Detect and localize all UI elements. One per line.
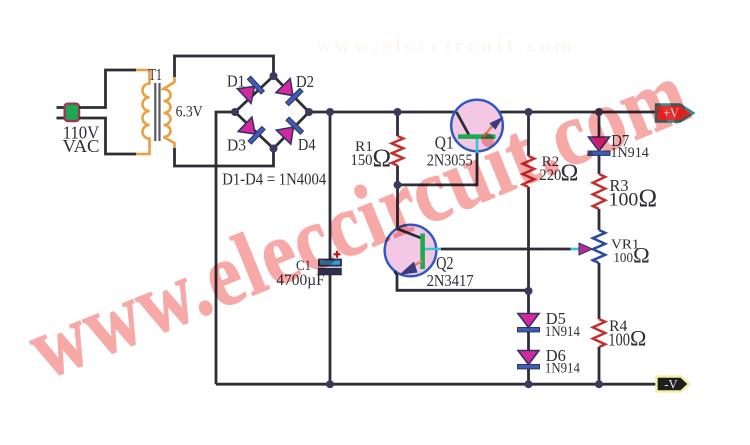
wire C1 branch top <box>329 112 332 260</box>
wire top rail to D7 <box>598 112 601 137</box>
diode D6 <box>518 351 540 369</box>
junction R1 top rail <box>394 108 402 116</box>
junction R4 ground rail <box>595 380 603 388</box>
watermark www.eleccircuit.com <box>15 43 702 399</box>
wire bridge left node to ground rail <box>216 112 235 384</box>
transistor Q2 2N3417 <box>385 225 441 277</box>
wire plug to primary bottom <box>79 118 137 154</box>
wire Q2 base to VR1 wiper (black part) <box>441 248 571 251</box>
svg-text:Q2: Q2 <box>436 253 454 273</box>
resistor R1 <box>392 136 404 166</box>
svg-text:Ω: Ω <box>633 243 650 268</box>
VR1 wiper arrow <box>579 243 593 255</box>
resistor R2 <box>523 156 535 187</box>
junction C1 ground rail <box>326 380 334 388</box>
capacitor C1 plates <box>319 260 342 275</box>
svg-text:2N3417: 2N3417 <box>427 271 474 290</box>
diode D1 <box>237 76 264 103</box>
svg-text:D4: D4 <box>298 135 316 154</box>
wire R4 to ground rail <box>598 347 601 384</box>
svg-text:D1: D1 <box>227 72 245 91</box>
wire D5 to D6 <box>527 332 530 351</box>
terminal -V <box>657 377 690 392</box>
svg-text:6.3V: 6.3V <box>176 104 203 121</box>
svg-text:T1: T1 <box>149 65 163 84</box>
junction bridge right node <box>305 108 313 116</box>
faint header watermark <box>316 35 576 56</box>
svg-text:100: 100 <box>613 250 633 265</box>
svg-text:1N914: 1N914 <box>545 324 580 340</box>
diode D4 <box>276 117 303 144</box>
diode D3 <box>238 117 265 144</box>
svg-text:VAC: VAC <box>63 136 100 156</box>
wire VR1 to R4 <box>598 263 601 319</box>
svg-text:D3: D3 <box>227 136 246 155</box>
junction bridge bottom node <box>270 145 278 153</box>
transistor Q1 2N3055 <box>451 100 503 153</box>
positive top rail <box>309 111 657 114</box>
wire plug to primary top <box>79 70 137 108</box>
bridge diamond wires <box>235 76 309 149</box>
svg-text:-V: -V <box>664 378 677 392</box>
junction D6 ground rail <box>525 380 533 388</box>
diode D7 <box>588 137 610 155</box>
junction R1 bottom / Q1 base <box>394 181 402 189</box>
plug P1 110V AC <box>57 104 80 121</box>
wire D7 to R3 <box>598 155 601 174</box>
resistor R4 <box>593 319 605 347</box>
potentiometer VR1 <box>593 230 605 263</box>
transformer T1 secondary winding <box>164 77 175 148</box>
junction D7 top rail <box>595 108 603 116</box>
wire secondary top to bridge top node <box>175 56 274 77</box>
ground rail (bottom) <box>216 383 657 386</box>
transformer T1 core <box>155 83 159 141</box>
svg-text:100: 100 <box>608 330 630 350</box>
transformer T1 primary winding <box>136 70 150 154</box>
terminal +V <box>656 105 693 122</box>
wire R3 to VR1 <box>598 209 601 230</box>
svg-text:100: 100 <box>609 190 639 211</box>
wire Q2 emitter down and right to D5 junction <box>395 271 529 290</box>
junction R2 top rail <box>525 108 533 116</box>
resistor R2 wires <box>527 112 530 314</box>
wire C1 branch bottom <box>329 275 332 385</box>
junction bridge left node <box>231 108 239 116</box>
svg-text:Ω: Ω <box>630 326 646 351</box>
junction bridge top node <box>270 72 278 80</box>
wiper cyan segment <box>571 248 581 251</box>
svg-text:1N914: 1N914 <box>545 360 580 376</box>
wire D6 to ground rail <box>527 369 530 384</box>
junction R2 bottom / D5 / Q2 emitter <box>525 287 533 295</box>
diode D5 <box>518 314 540 332</box>
diode D2 <box>276 79 303 106</box>
svg-text:D2: D2 <box>296 72 314 91</box>
resistor R1 wires <box>396 112 399 229</box>
wire secondary bottom to bridge bottom node <box>175 148 274 166</box>
svg-text:Ω: Ω <box>639 185 658 212</box>
resistor R3 <box>593 174 605 209</box>
wire Q1 base to R1 bottom <box>398 150 478 185</box>
junction C1 top rail <box>326 108 334 116</box>
C1 plus sign <box>334 251 341 258</box>
